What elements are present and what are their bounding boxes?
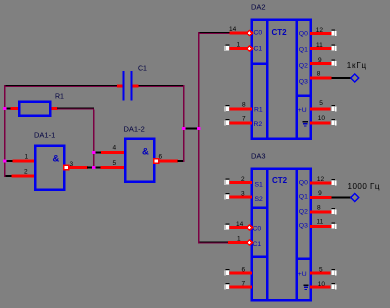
svg-text:5: 5: [319, 100, 323, 107]
svg-text:DA3: DA3: [251, 151, 266, 160]
svg-text:CT2: CT2: [272, 176, 288, 185]
svg-text:1: 1: [237, 236, 241, 243]
svg-text:8: 8: [317, 205, 321, 212]
svg-text:S2: S2: [255, 196, 264, 203]
svg-text:R1: R1: [55, 94, 64, 101]
svg-text:14: 14: [229, 26, 237, 33]
svg-text:Q0: Q0: [299, 179, 308, 186]
svg-text:+U: +U: [298, 107, 307, 114]
svg-text:3: 3: [241, 191, 245, 198]
svg-text:DA2: DA2: [251, 2, 266, 11]
svg-text:R2: R2: [254, 121, 263, 128]
svg-text:1кГц: 1кГц: [347, 61, 367, 70]
svg-text:2: 2: [24, 169, 28, 176]
svg-text:8: 8: [242, 101, 246, 108]
svg-text:12: 12: [317, 176, 325, 183]
svg-text:CT2: CT2: [272, 28, 288, 37]
svg-text:DA1-1: DA1-1: [34, 130, 55, 139]
svg-text:C1: C1: [253, 241, 262, 248]
svg-text:1: 1: [237, 41, 241, 48]
svg-text:C1: C1: [138, 66, 147, 73]
svg-text:Q2: Q2: [299, 209, 308, 216]
svg-text:C1: C1: [254, 46, 263, 53]
svg-text:DA1-2: DA1-2: [124, 124, 145, 133]
svg-text:Q0: Q0: [299, 31, 308, 38]
svg-text:&: &: [142, 146, 149, 157]
svg-text:9: 9: [318, 190, 322, 197]
svg-text:2: 2: [241, 176, 245, 183]
svg-text:6: 6: [159, 153, 163, 160]
svg-text:7: 7: [242, 115, 246, 122]
svg-text:11: 11: [317, 219, 324, 226]
svg-text:1: 1: [25, 154, 29, 161]
svg-text:Q1: Q1: [299, 47, 308, 54]
svg-text:Q3: Q3: [299, 79, 308, 86]
svg-text:9: 9: [318, 57, 322, 64]
svg-text:+U: +U: [298, 271, 307, 278]
svg-text:6: 6: [242, 267, 246, 274]
svg-text:11: 11: [316, 42, 323, 49]
svg-text:C0: C0: [254, 29, 263, 36]
svg-text:8: 8: [317, 71, 321, 78]
svg-text:5: 5: [113, 160, 117, 167]
svg-text:3: 3: [70, 161, 74, 168]
svg-text:10: 10: [318, 115, 326, 122]
svg-text:1000 Гц: 1000 Гц: [348, 182, 380, 191]
svg-text:Q1: Q1: [299, 194, 308, 201]
svg-text:S1: S1: [255, 182, 264, 189]
svg-text:7: 7: [242, 281, 246, 288]
svg-text:10: 10: [318, 281, 326, 288]
svg-text:5: 5: [319, 267, 323, 274]
svg-text:Q3: Q3: [299, 223, 308, 230]
svg-text:12: 12: [316, 27, 324, 34]
svg-text:Q2: Q2: [299, 63, 308, 70]
svg-text:14: 14: [236, 221, 244, 228]
svg-text:R1: R1: [254, 107, 263, 114]
svg-text:4: 4: [113, 145, 117, 152]
svg-text:C0: C0: [253, 226, 262, 233]
svg-text:&: &: [53, 153, 60, 164]
